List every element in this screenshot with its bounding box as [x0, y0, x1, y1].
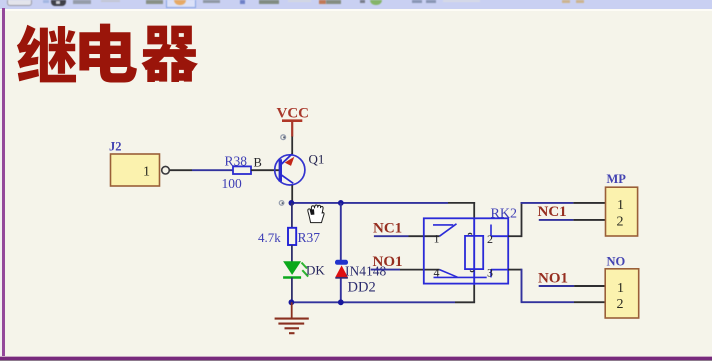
wire R38 to Q1 base — [251, 169, 280, 171]
connector NO body — [605, 269, 639, 318]
svg-text:3: 3 — [487, 266, 493, 280]
wire to MP pin1 (blue then black) — [521, 202, 606, 204]
svg-text:Q1: Q1 — [309, 152, 325, 167]
wire NC1 to relay pin1 — [374, 235, 440, 237]
relay coil pin marks — [468, 233, 474, 272]
junction at ground — [289, 299, 295, 305]
wire Q1 collector up to VCC — [291, 136, 293, 154]
svg-text:B: B — [254, 156, 262, 170]
wire to relay coil top — [341, 202, 475, 219]
resistor R37 body — [288, 228, 296, 245]
svg-text:4.7k: 4.7k — [258, 230, 281, 245]
no-ERC marker near Q1 collector — [281, 135, 286, 140]
svg-text:100: 100 — [222, 176, 243, 191]
toolbar strip (cut off at top) — [0, 0, 712, 9]
svg-text:MP: MP — [607, 172, 627, 186]
svg-text:2: 2 — [617, 215, 624, 230]
relay coil wire through — [473, 219, 475, 285]
svg-text:VCC: VCC — [277, 106, 310, 122]
wire J2 to R38 (black then blue) — [170, 169, 234, 171]
resistor R38 body — [233, 166, 251, 174]
wire junction row y=203 — [291, 202, 340, 204]
svg-text:NO1: NO1 — [373, 254, 403, 270]
relay RK2 body — [424, 218, 508, 283]
window left border — [0, 10, 2, 358]
hand cursor — [308, 205, 324, 223]
svg-text:NO: NO — [607, 255, 626, 269]
transistor Q1 — [275, 153, 305, 185]
ground symbol — [275, 302, 309, 333]
J2 pin open circle — [162, 166, 170, 174]
junction at DD2 bottom — [338, 299, 344, 305]
svg-text:DD2: DD2 — [348, 280, 376, 296]
svg-text:J2: J2 — [109, 140, 122, 154]
svg-text:DK: DK — [306, 263, 325, 278]
wire relay pin2 up to MP pin1 run — [508, 202, 522, 237]
wire relay pin3 down to NO pin2 run — [508, 269, 522, 303]
svg-text:1: 1 — [143, 165, 150, 180]
svg-text:NC1: NC1 — [538, 204, 567, 220]
svg-text:R37: R37 — [298, 230, 321, 245]
wire junction to R37 — [291, 203, 293, 228]
connector MP body — [606, 187, 638, 236]
window bottom border — [0, 356, 712, 357]
relay RK2 coil — [465, 236, 483, 269]
wire DK to bottom junction — [291, 278, 293, 303]
wire to NO pin1 — [539, 285, 606, 287]
wire NO1 to relay pin4 — [371, 269, 440, 271]
relay contact blade pin4 — [434, 270, 487, 278]
bottom wire y=302.3 — [291, 285, 475, 302]
svg-text:2: 2 — [487, 232, 493, 246]
connector J2 body — [111, 154, 160, 186]
title text 继电器 — [0, 0, 712, 120]
junction at Q1 emitter — [289, 200, 295, 206]
wire to NO pin2 (blue then black) — [521, 301, 606, 303]
wire R37 to DK — [291, 245, 293, 262]
relay contact blade pin1 — [433, 224, 457, 236]
relay pin 3 throw bar — [491, 270, 508, 278]
svg-text:2: 2 — [617, 297, 624, 312]
diode DD2 body — [335, 265, 348, 277]
svg-text:RK2: RK2 — [491, 207, 517, 222]
svg-text:R38: R38 — [225, 154, 248, 169]
junction at DD2 top — [338, 200, 344, 206]
no-ERC marker near emitter junction — [279, 201, 284, 206]
svg-text:NO1: NO1 — [538, 271, 568, 287]
wire DD2 column — [340, 203, 342, 303]
wire Q1 emitter down to junction — [291, 185, 293, 203]
svg-text:1: 1 — [617, 198, 624, 213]
svg-text:1: 1 — [434, 232, 440, 246]
wire to MP pin2 — [539, 219, 606, 221]
toolbar icon fragments — [7, 0, 32, 6]
svg-text:NC1: NC1 — [373, 221, 402, 237]
diode DD2 cathode bar — [335, 260, 348, 265]
LED DK — [283, 261, 308, 277]
relay pin 2 throw bar — [491, 225, 508, 237]
svg-text:1: 1 — [617, 281, 624, 296]
power VCC symbol — [277, 106, 310, 137]
